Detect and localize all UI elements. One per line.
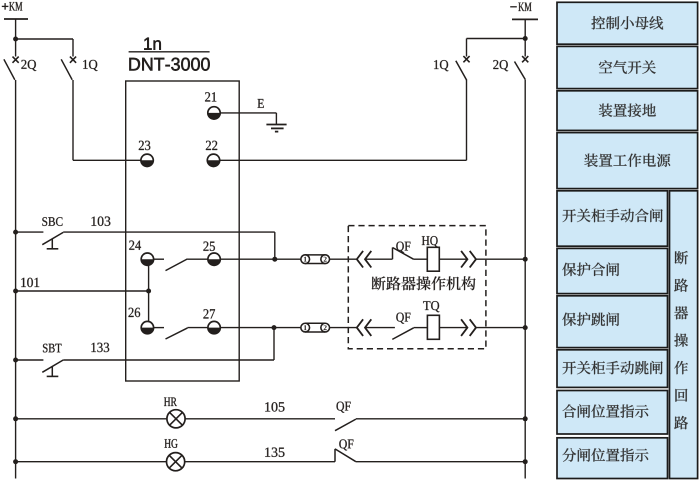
wire HG row 135 [13, 459, 18, 464]
node junction left bus [13, 37, 18, 42]
contact QF trip (NO) [392, 328, 413, 340]
wire plug to rail close [476, 258, 525, 260]
label HR [164, 398, 177, 407]
contact 24-25 [152, 258, 164, 260]
label 101 [21, 278, 39, 287]
coil TQ [427, 315, 439, 339]
terminal strip XT 1-2 close [305, 254, 325, 256]
panel cell 开关柜手动合闸 [557, 191, 668, 246]
terminal 27 [208, 321, 220, 333]
wire QF to HQ [414, 258, 428, 260]
breaker 2Q left [13, 57, 19, 63]
wire SBC row 103 [13, 230, 18, 235]
wire 1Q right to terminal 22 [466, 80, 468, 160]
panel cell 开关柜手动跳闸 [557, 350, 668, 388]
terminal 26 [141, 321, 153, 333]
bus +KM [4, 18, 28, 20]
label 1Q right [434, 60, 448, 71]
contact 26-27 [152, 327, 164, 329]
coil HQ [427, 247, 439, 271]
push-button SBT [42, 360, 63, 372]
wire node 101 [13, 289, 18, 294]
contact QF close (NC) [392, 248, 394, 260]
terminal 24 [141, 253, 153, 265]
label underline [129, 51, 210, 53]
panel cell 合闸位置指示 [557, 391, 668, 435]
wire terminal 21 to ground [214, 112, 276, 114]
panel cell 装置接地 [557, 91, 698, 131]
wire plug to QF trip [365, 327, 395, 329]
label -KM [510, 6, 517, 8]
panel cell 控制小母线 [557, 2, 698, 44]
bus -KM [512, 18, 538, 20]
wire SBT row 133 [13, 358, 18, 363]
wire TQ to plug right [439, 327, 467, 329]
terminal strip XT 1-2 trip [305, 322, 325, 324]
op-box relay 1n DNT-3000 [126, 81, 240, 381]
wire 27 output [220, 327, 301, 329]
label HG [165, 439, 178, 448]
label SBC [42, 217, 62, 226]
panel cell 保护合闸 [557, 248, 668, 293]
label 1n [144, 38, 161, 50]
node junction right bus [523, 36, 528, 41]
wire right rail [524, 80, 526, 479]
contact QF lamp open (NC) [334, 449, 336, 462]
label 2Q [21, 60, 36, 71]
wire HR row 105 [13, 416, 18, 421]
breaker 2Q right [522, 56, 528, 62]
label QF lamp close [337, 402, 351, 413]
wire 1Q to terminal 23 [72, 80, 74, 160]
connector plug close left [357, 251, 363, 268]
label 135 [265, 448, 284, 457]
wire HQ to plug right [439, 258, 467, 260]
panel cell 保护跳闸 [557, 296, 668, 348]
terminal 22 [207, 154, 219, 166]
wire to plug close [330, 258, 357, 260]
label HQ [422, 236, 438, 247]
ground [266, 124, 286, 126]
label 133 [91, 343, 109, 352]
label 21 [205, 92, 216, 101]
panel cell 断路器操作回路 vertical [670, 191, 698, 479]
panel cell 装置工作电源 [557, 133, 698, 189]
terminal 25 [208, 253, 220, 265]
panel cell 分闸位置指示 [557, 438, 668, 479]
push-button SBC [42, 232, 63, 244]
wire plug to QF close [365, 258, 393, 260]
wire bus to junction [15, 19, 17, 57]
label E [258, 99, 264, 108]
connector plug trip right [461, 319, 467, 336]
node junction 103/25 [272, 257, 277, 262]
wire junction to right 1Q [467, 38, 526, 40]
wire bus to junction right [524, 19, 526, 56]
terminal 21 [208, 107, 220, 119]
breaker 1Q right [466, 39, 468, 57]
label 2Q right [493, 60, 508, 71]
node link junction [146, 289, 151, 294]
connector plug trip left [357, 319, 363, 336]
label TQ [423, 301, 439, 312]
wire 25 output [220, 258, 301, 260]
connector plug close right [461, 251, 467, 268]
label DNT-3000 [129, 58, 209, 71]
wire junction to 1Q branch [16, 38, 73, 40]
label QF trip [396, 313, 410, 324]
contact QF lamp close (NO) [335, 419, 356, 431]
node rail trip [523, 325, 528, 330]
breaker 1Q left [72, 39, 74, 57]
wire QF to TQ [414, 327, 428, 329]
lamp HR [167, 410, 185, 428]
lamp HG [167, 453, 185, 471]
terminal 23 [141, 154, 153, 166]
wire left rail [15, 80, 17, 479]
op-mechanism dashed box [348, 226, 486, 349]
label QF lamp open [339, 439, 353, 450]
label SBT [43, 344, 62, 353]
wire to plug trip [330, 327, 357, 329]
node junction 133/27 [272, 325, 277, 330]
label 23 [139, 141, 151, 150]
wire link 24-26 [148, 265, 150, 321]
label 103 [92, 217, 111, 226]
label 105 [265, 402, 284, 411]
wire plug to rail trip [476, 327, 525, 329]
label 断路器操作机构 [372, 276, 476, 290]
label QF close [396, 242, 410, 253]
panel cell 空气开关 [557, 46, 698, 88]
label 1Q [83, 60, 97, 71]
label 22 [206, 141, 217, 150]
node rail close [523, 257, 528, 262]
label +KM [2, 5, 9, 7]
